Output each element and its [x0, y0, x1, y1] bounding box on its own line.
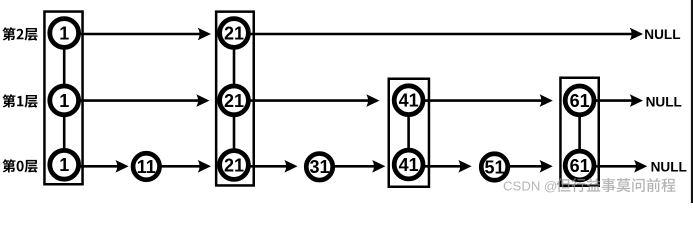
svg-text:NULL: NULL [644, 27, 680, 42]
svg-text:61: 61 [570, 156, 590, 176]
svg-text:21: 21 [224, 155, 244, 175]
svg-text:1: 1 [59, 155, 69, 175]
svg-text:61: 61 [570, 91, 590, 111]
svg-text:21: 21 [224, 23, 244, 43]
svg-text:CSDN @: CSDN @ [503, 178, 557, 193]
svg-text:51: 51 [484, 157, 504, 177]
svg-text:31: 31 [309, 157, 329, 177]
svg-text:11: 11 [137, 157, 156, 177]
svg-text:21: 21 [224, 91, 244, 111]
svg-text:41: 41 [399, 91, 419, 111]
svg-text:1: 1 [59, 23, 69, 43]
svg-text:41: 41 [399, 155, 419, 175]
svg-text:NULL: NULL [646, 94, 682, 109]
svg-text:1: 1 [59, 91, 69, 111]
svg-text:NULL: NULL [651, 159, 687, 174]
